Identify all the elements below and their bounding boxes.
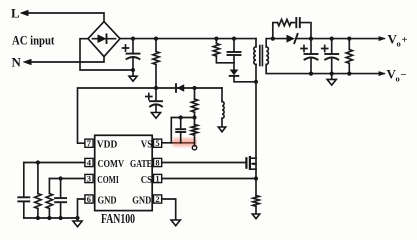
node rail d [75, 216, 79, 220]
resistor load [346, 39, 352, 74]
pin 1 [154, 174, 162, 184]
svg-text:o: o [397, 38, 401, 48]
pin 4 [85, 158, 93, 168]
arrow Vo- [379, 71, 386, 76]
svg-text:5: 5 [155, 138, 159, 148]
resistor sense [253, 179, 259, 215]
resistor COMI [46, 179, 52, 219]
ground output [327, 74, 336, 86]
svg-text:VS: VS [141, 139, 153, 151]
node rail b [47, 216, 51, 220]
wire VS pin [162, 142, 195, 144]
capacitor output 2 [322, 39, 339, 74]
wire VS vertical [170, 118, 172, 143]
pin 3 [85, 174, 93, 184]
resistor COMV [35, 163, 41, 219]
node COMI cap [59, 176, 63, 180]
svg-text:6: 6 [87, 194, 91, 204]
svg-text:VDD: VDD [97, 139, 118, 151]
diode aux rectifier [176, 84, 184, 92]
wire GATE [162, 162, 245, 164]
ground sense [252, 214, 259, 219]
svg-text:GND: GND [98, 195, 117, 207]
label N [12, 55, 22, 70]
wire CS [162, 178, 256, 180]
output snubber [273, 18, 311, 39]
bridge rectifier BR1 [88, 22, 120, 57]
wire bottom rail [24, 217, 78, 219]
ground VDD cap [151, 113, 160, 119]
wire GND pin6 [78, 199, 85, 221]
IC U1 FAN100 box [95, 135, 153, 210]
svg-text:AC input: AC input [12, 34, 55, 48]
svg-text:N: N [12, 55, 22, 70]
wire COMV [24, 162, 85, 164]
highlight red mark [173, 138, 197, 146]
resistor VS upper [191, 88, 197, 118]
transformer core [260, 46, 263, 66]
wire VS node horizontal [171, 117, 194, 119]
svg-text:COMI: COMI [97, 174, 119, 186]
wire bridge minus loop [80, 39, 133, 70]
ground bulk [129, 70, 137, 81]
resistor VS lower with terminal [191, 118, 197, 150]
pin 7 [85, 138, 93, 148]
aux winding [222, 88, 224, 127]
node outb1 [309, 72, 313, 76]
svg-text:GATE: GATE [130, 158, 152, 170]
capacitor clamp [228, 39, 241, 70]
svg-text:L: L [11, 6, 20, 21]
svg-text:2: 2 [155, 194, 159, 204]
transformer secondary [266, 39, 384, 74]
node snubber C top [232, 37, 236, 41]
pin 5 [154, 138, 162, 148]
resistor startup R1 [153, 39, 159, 88]
node bulk cap top [131, 37, 135, 41]
node out3 [347, 37, 351, 41]
svg-text:o: o [396, 73, 400, 83]
node out1 [309, 37, 313, 41]
node cap tap [179, 115, 183, 119]
node VDD rail cap [154, 86, 158, 90]
node VS mid [192, 115, 196, 119]
label L [11, 6, 20, 21]
node snubber R top [214, 37, 218, 41]
diode output [287, 34, 385, 43]
svg-text:3: 3 [87, 174, 91, 184]
wire GND pin2 [162, 199, 176, 220]
pin 8 [154, 158, 162, 168]
wire N with arrow [23, 57, 105, 66]
transistor Q1 MOSFET [246, 82, 256, 179]
ground pin6 [73, 221, 82, 227]
diode clamp [230, 70, 256, 82]
svg-text:4: 4 [87, 158, 92, 168]
ground pin2 [171, 220, 180, 226]
svg-text:1: 1 [155, 174, 159, 184]
node bulk cap bottom [131, 68, 135, 72]
wire VDD rail [78, 88, 223, 143]
node drain junction [254, 80, 258, 84]
svg-text:CS: CS [141, 174, 152, 186]
svg-text:GND: GND [132, 195, 151, 207]
pin 2 [154, 194, 162, 204]
label Vo- [387, 67, 407, 84]
node outb2 [330, 72, 334, 76]
capacitor COMV [18, 163, 29, 219]
ground aux winding [218, 127, 225, 132]
node source [254, 176, 258, 180]
label Vo+ [388, 32, 408, 49]
wire top DC rail [120, 38, 256, 40]
capacitor bulk C1 [123, 39, 140, 70]
svg-text:7: 7 [87, 138, 92, 148]
node snubber left [271, 37, 275, 41]
svg-text:COMV: COMV [98, 158, 125, 170]
svg-text:+: + [402, 35, 408, 46]
node startup top [154, 37, 158, 41]
capacitor output 1 [301, 39, 318, 74]
arrow Vo+ [379, 36, 386, 41]
capacitor VS filter [176, 118, 185, 143]
node outb3 [347, 72, 351, 76]
node rail c [59, 216, 63, 220]
node COMV R [36, 160, 40, 164]
wire L with arrow [20, 10, 105, 22]
pin 6 [85, 194, 93, 204]
capacitor COMI [55, 179, 66, 219]
capacitor VDD [146, 88, 162, 113]
node rail a [36, 216, 40, 220]
svg-text:FAN100: FAN100 [101, 212, 135, 227]
wire COMI [49, 178, 85, 180]
label AC input [12, 34, 55, 48]
resistor clamp [213, 39, 234, 63]
node out2 [330, 37, 334, 41]
transformer primary [254, 39, 256, 82]
svg-text:−: − [401, 70, 407, 81]
svg-text:8: 8 [155, 158, 159, 168]
node VS divider top [192, 86, 196, 90]
